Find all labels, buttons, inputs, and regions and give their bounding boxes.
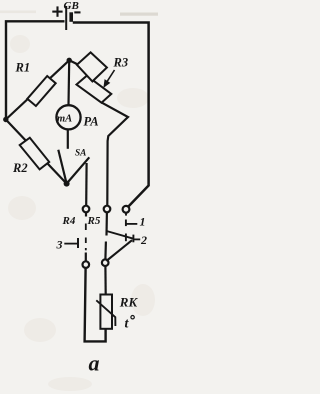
svg-text:RK: RK	[119, 294, 139, 309]
plus sign	[52, 6, 62, 16]
resistor R3 upper body	[77, 52, 107, 81]
R5 column wire segments	[105, 212, 108, 235]
wire: meter to switch contact	[67, 130, 69, 149]
wire: arm A-C	[6, 120, 67, 184]
svg-text:mA: mA	[57, 113, 72, 124]
switch SA arm right	[67, 157, 90, 183]
thermistor RK body	[100, 295, 112, 329]
svg-text:R5: R5	[87, 215, 101, 227]
svg-text:3: 3	[56, 238, 63, 252]
terminal circle lower right	[102, 259, 109, 266]
contact 2 tick and lead	[132, 235, 134, 243]
contact 1 lead	[127, 223, 138, 225]
svg-text:SA: SA	[75, 148, 86, 158]
thermistor diagonal	[96, 300, 115, 326]
wire: arm A-B	[6, 60, 69, 119]
wire: lower-right terminal to RK	[104, 266, 106, 294]
terminal circle R4 top	[83, 206, 90, 213]
node B (bridge top vertex)	[67, 58, 72, 63]
wire: lower-left terminal down to bottom line	[85, 268, 106, 341]
battery GB long plate	[65, 6, 67, 30]
wire: B down to meter	[67, 61, 70, 105]
svg-text:R1: R1	[15, 60, 31, 74]
stub below terminal	[85, 213, 87, 217]
wire: R3 to vertex D and down to contact circle	[102, 103, 128, 206]
svg-text:R2: R2	[12, 161, 28, 175]
resistor R2	[20, 138, 50, 170]
paper background	[0, 0, 158, 394]
R3 adjustment arrow	[104, 70, 114, 86]
svg-text:a: a	[89, 351, 100, 376]
terminal circle R5 top	[104, 206, 111, 213]
resistor R3 lower body	[77, 76, 112, 103]
wire above lower-left terminal	[85, 253, 87, 262]
battery GB short plate	[69, 12, 73, 21]
resistor R1	[27, 76, 55, 106]
switch arm lower section	[106, 240, 132, 261]
branch wire from R5 column to contact 2	[107, 231, 134, 239]
minus sign	[74, 11, 80, 13]
dashed link R4 column	[85, 224, 87, 251]
contact 1 circle handled above; dashed link right column	[123, 206, 130, 213]
svg-text:GB: GB	[64, 0, 79, 12]
wire: top-right from battery to contact 1 circle	[73, 23, 149, 207]
switch SA arm left	[58, 150, 66, 184]
svg-text:2: 2	[140, 233, 147, 247]
wire: arm B to R3	[69, 60, 80, 65]
milliammeter PA	[56, 105, 80, 129]
contact 3 tick and lead	[77, 238, 79, 248]
wire: top-left from battery to left vertex	[6, 21, 65, 119]
node A (bridge left vertex)	[3, 117, 8, 122]
svg-text:R3: R3	[113, 56, 129, 70]
svg-text:1: 1	[140, 215, 146, 229]
wire: contact to terminal circle (R4 column)	[85, 163, 88, 206]
terminal circle lower left	[83, 261, 90, 268]
node C (bridge bottom junction)	[64, 181, 70, 187]
svg-text:PA: PA	[84, 114, 99, 128]
svg-text:R4: R4	[62, 215, 76, 227]
